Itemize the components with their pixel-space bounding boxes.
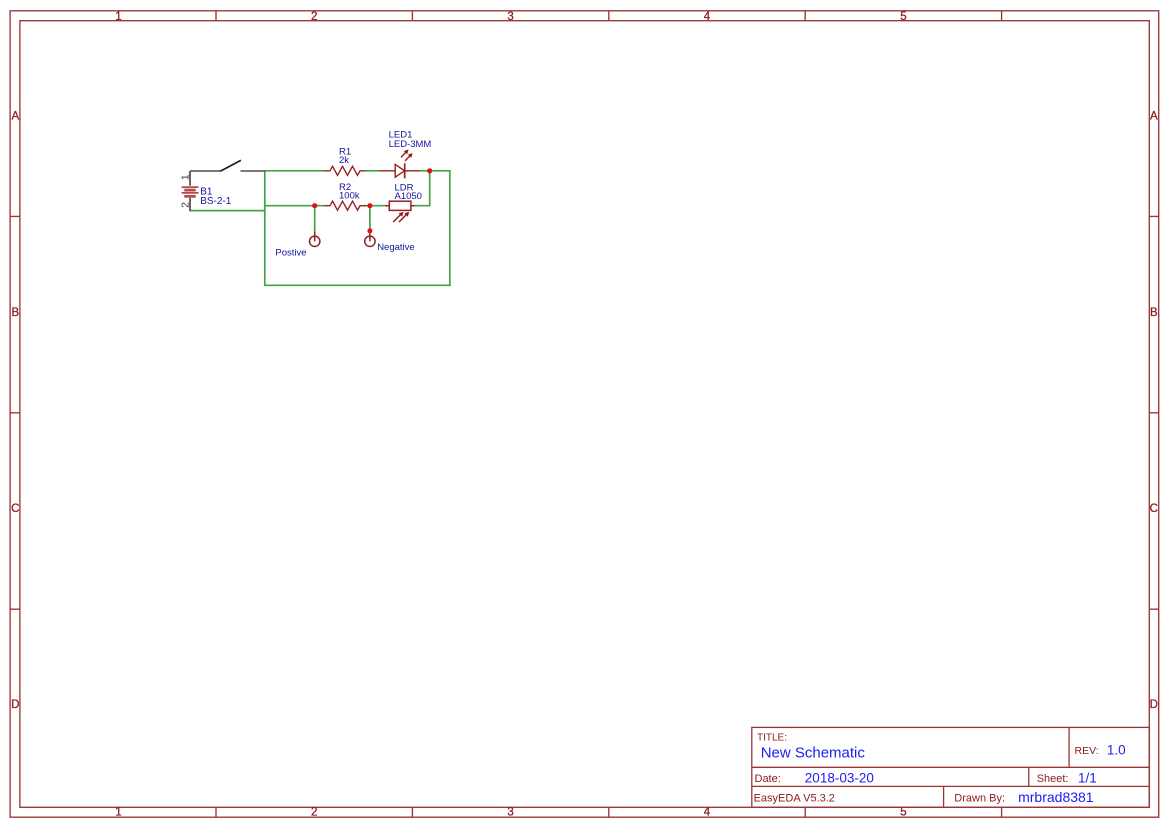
svg-text:D: D: [1150, 699, 1158, 711]
svg-text:4: 4: [704, 11, 711, 23]
wire R2 to LDR: [365, 205, 386, 207]
junction dot R2 right: [367, 203, 372, 208]
wire junction down to LDR row: [414, 171, 430, 206]
svg-text:Drawn By:: Drawn By:: [954, 793, 1005, 805]
svg-text:5: 5: [900, 11, 906, 23]
svg-text:3: 3: [507, 807, 513, 819]
svg-text:EasyEDA V5.3.2: EasyEDA V5.3.2: [754, 793, 835, 805]
svg-text:2: 2: [311, 807, 317, 819]
emission arrows: [401, 152, 410, 161]
junction dot R2 left: [312, 203, 317, 208]
title block: [752, 727, 1150, 807]
svg-text:3: 3: [507, 11, 513, 23]
wire switch to R1: [265, 170, 325, 172]
switch: [190, 160, 265, 171]
resistor R1: [325, 166, 365, 175]
svg-text:Postive: Postive: [275, 247, 306, 258]
battery plates: [182, 187, 199, 196]
svg-text:REV:: REV:: [1075, 745, 1099, 757]
junction dot Negative stub: [367, 228, 372, 233]
svg-text:D: D: [11, 699, 19, 711]
svg-text:Date:: Date:: [755, 773, 781, 785]
svg-text:C: C: [1150, 503, 1158, 515]
junction dot LED out: [427, 168, 432, 173]
svg-text:A: A: [11, 111, 19, 123]
wire top row: [190, 171, 450, 285]
svg-text:B: B: [1150, 307, 1158, 319]
svg-text:1.0: 1.0: [1107, 742, 1126, 757]
svg-text:C: C: [11, 503, 19, 515]
svg-text:2: 2: [311, 11, 317, 23]
svg-text:1: 1: [115, 11, 121, 23]
svg-text:5: 5: [900, 807, 906, 819]
svg-text:New Schematic: New Schematic: [761, 744, 866, 761]
svg-text:B: B: [11, 307, 19, 319]
svg-text:A1050: A1050: [395, 191, 422, 202]
LDR: [385, 201, 414, 222]
wire battery bottom: [190, 210, 265, 212]
svg-text:2k: 2k: [339, 155, 349, 166]
svg-text:BS-2-1: BS-2-1: [200, 196, 232, 207]
wire right side down: [449, 171, 451, 285]
svg-text:1/1: 1/1: [1078, 770, 1097, 785]
svg-text:Sheet:: Sheet:: [1037, 773, 1069, 785]
wire LED to right edge: [419, 170, 450, 172]
svg-text:2: 2: [180, 202, 192, 208]
svg-text:LED-3MM: LED-3MM: [389, 139, 432, 150]
svg-text:4: 4: [704, 807, 711, 819]
svg-text:100k: 100k: [339, 191, 360, 202]
wire R1 to LED: [365, 170, 380, 172]
pin Negative: [365, 231, 375, 247]
svg-text:mrbrad8381: mrbrad8381: [1018, 789, 1094, 805]
svg-text:1: 1: [115, 807, 121, 819]
pin Postive: [310, 232, 320, 247]
svg-text:Negative: Negative: [377, 242, 415, 253]
svg-text:1: 1: [180, 174, 192, 180]
wire Negative stub: [369, 206, 371, 231]
svg-text:A: A: [1150, 111, 1158, 123]
LED1: [380, 152, 420, 178]
resistor R2: [325, 201, 366, 210]
wire Postive stub: [314, 206, 316, 232]
wire R2 row left: [265, 205, 325, 207]
LDR arrows: [393, 215, 406, 222]
svg-text:2018-03-20: 2018-03-20: [805, 771, 874, 786]
wire left vertical: [264, 171, 266, 285]
wire bottom: [265, 284, 450, 286]
battery B1: [189, 171, 191, 211]
svg-text:TITLE:: TITLE:: [757, 733, 787, 744]
